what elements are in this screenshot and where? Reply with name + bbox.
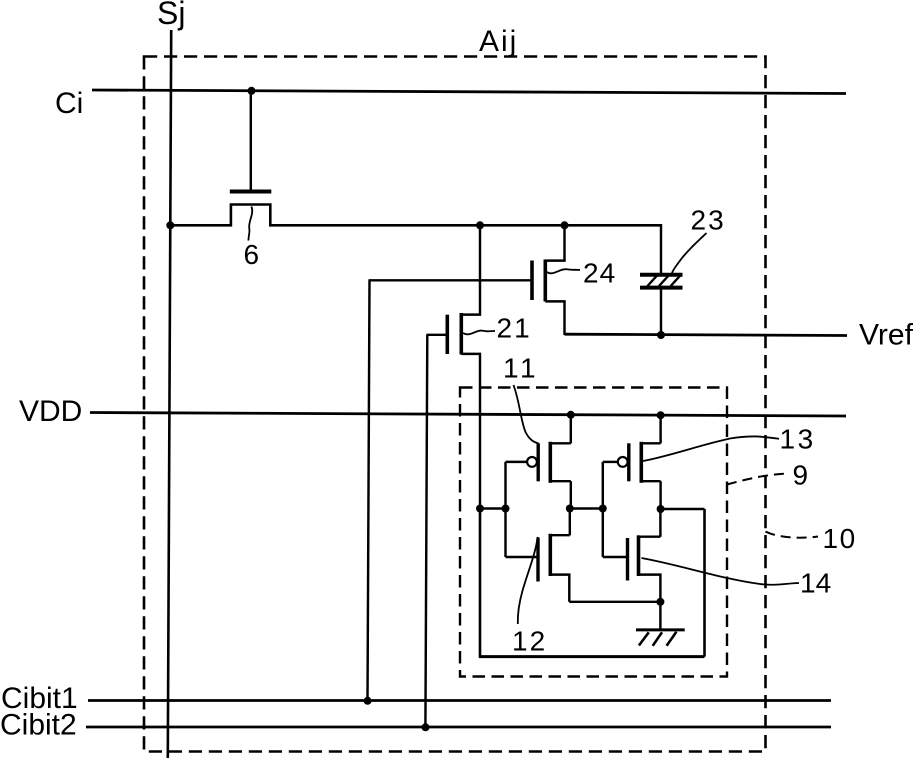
wire Sj (column line) (168, 30, 171, 758)
nmos 14 channel bar (637, 535, 641, 576)
wire: gate of nmos 14 (603, 556, 628, 558)
svg-text:24: 24 (583, 258, 616, 289)
svg-text:12: 12 (512, 626, 547, 657)
pmos 11 drain wire to node (570, 481, 572, 508)
capacitor 23 bottom wire to Vref (660, 289, 662, 335)
pmos 13 source wire from VDD (659, 415, 661, 443)
wire: feedback right vertical (703, 509, 706, 657)
transistor 24 channel bar (543, 260, 547, 302)
pmos 13 source stub (641, 442, 660, 444)
nmos 14 drain wire from node (659, 509, 661, 537)
wire: ground node to ground symbol (659, 602, 661, 630)
leader squiggle for label 6 (248, 207, 252, 241)
nmos 12 channel bar (548, 534, 552, 576)
pmos 11 drain stub (550, 480, 571, 482)
transistor 21 source stub down to latch node (461, 354, 480, 509)
wire Cibit2 (row line) (86, 726, 831, 729)
wire Cibit1 (row line) (88, 699, 831, 702)
transistor 24 source stub to Vref (545, 301, 564, 335)
leader squiggle for label 23 (672, 233, 707, 273)
leader squiggle for label 12 (518, 537, 538, 624)
transistor 21 gate bar (445, 315, 449, 354)
junction VDD / pmos 11 source (567, 411, 575, 419)
svg-text:10: 10 (823, 523, 857, 554)
pmos 11 source wire from VDD (570, 415, 572, 444)
wire VDD (row line) (90, 413, 846, 417)
junction node left / feedback (476, 505, 484, 513)
pmos 13 channel bar (639, 442, 643, 483)
svg-text:11: 11 (503, 353, 539, 384)
wire: inverter R input vertical (602, 462, 604, 557)
svg-text:Ci: Ci (55, 87, 83, 120)
transistor 21 drain stub to row wire (461, 225, 480, 314)
svg-text:VDD: VDD (19, 395, 82, 428)
dashed leader for label 10 (766, 532, 819, 538)
transistor 21 channel bar (459, 313, 463, 355)
pmos 11 channel bar (548, 442, 552, 483)
ground symbol (636, 630, 685, 646)
wire: gate of transistor 6 to Ci (250, 91, 252, 190)
junction Sj / row wire (166, 221, 174, 229)
transistor 24 drain stub to row wire (545, 225, 564, 260)
junction inverter L output (566, 505, 574, 513)
wire: feedback bottom (479, 655, 705, 658)
svg-text:Cibit2: Cibit2 (0, 709, 77, 742)
capacitor 23 top wire (660, 224, 662, 273)
capacitor 23 bottom plate (640, 286, 683, 290)
junction on Ci at gate of transistor 6 (248, 87, 256, 95)
svg-text:9: 9 (793, 460, 809, 491)
wire: gate of inverter L (pmos 11) (506, 461, 528, 463)
pmos 11 gate bar (537, 443, 540, 481)
wire: latch node left segment (480, 507, 506, 509)
junction node left / inverter L input (502, 505, 510, 513)
svg-text:Vref: Vref (859, 319, 914, 352)
wire: latch node middle segment (inverter L out to inverter R in) (570, 507, 603, 509)
svg-text:14: 14 (800, 568, 831, 599)
wire: feedback left vertical (479, 509, 482, 657)
pmos 11 gate bubble (527, 457, 537, 467)
nmos 12 drain stub (550, 534, 570, 536)
junction row wire / transistor 24 drain (561, 221, 569, 229)
outer cell box Aij (dashed) (144, 57, 766, 752)
pmos 13 gate bar (627, 443, 630, 481)
wire: nmos 12 source to ground node (569, 601, 660, 603)
wire Ci (row line) (92, 90, 846, 94)
leader squiggle for label 13 (643, 436, 779, 461)
wire: inverter L input vertical (504, 462, 506, 557)
latch dashed box 9 (460, 388, 727, 677)
junction inverter R input (599, 505, 607, 513)
dashed leader for label 9 (727, 474, 789, 485)
junction Cibit1 / gate wire of 24 (364, 697, 372, 705)
pmos 13 drain wire to node (659, 481, 661, 509)
wire: gate of inverter R (pmos 13) (603, 461, 618, 463)
pmos 13 gate bubble (618, 457, 628, 467)
junction capacitor 23 / Vref (657, 331, 665, 339)
pmos 11 source stub (550, 442, 571, 444)
svg-text:Sj: Sj (157, 0, 185, 31)
wire Vref (565, 334, 848, 335)
wire: gate of 24 down to Cibit1 (368, 280, 370, 701)
wire: inverter R output to feedback (right node) (661, 508, 705, 510)
nmos 12 gate bar (536, 538, 539, 582)
leader squiggle for label 11 (514, 385, 539, 444)
wire: gate of 21 down to Cibit2 (425, 335, 427, 729)
nmos 14 drain stub (639, 535, 661, 537)
nmos 14 gate bar (626, 538, 629, 581)
junction Cibit2 / gate wire of 21 (422, 723, 430, 731)
capacitor 23 top plate (640, 273, 683, 277)
nmos 12 source stub (550, 575, 569, 602)
transistor 6 gate plate (230, 190, 271, 194)
junction VDD / pmos 13 source (657, 411, 665, 419)
junction ground node (656, 598, 664, 606)
leader squiggle for label 14 (642, 558, 800, 585)
leader squiggle for label 24 (547, 269, 580, 273)
junction inverter R output (657, 505, 665, 513)
transistor 24 gate bar (530, 261, 534, 301)
capacitor 23 hatch slashes (648, 274, 682, 286)
junction row wire / transistor 21 drain (476, 221, 484, 229)
svg-text:Aij: Aij (479, 25, 518, 58)
wire row y=225 with transistor 6 channel hump (170, 205, 661, 226)
leader squiggle for label 21 (463, 331, 495, 335)
pmos 13 drain stub (641, 480, 660, 482)
svg-text:23: 23 (691, 205, 726, 236)
wire: transistor 21 gate (427, 334, 448, 336)
wire: gate of nmos 12 (506, 556, 539, 558)
svg-text:21: 21 (497, 313, 532, 344)
nmos 12 drain wire from node (569, 509, 571, 536)
nmos 14 source stub (639, 575, 661, 602)
wire: transistor 24 gate (369, 279, 533, 281)
svg-text:6: 6 (244, 239, 260, 270)
svg-text:13: 13 (780, 424, 816, 455)
